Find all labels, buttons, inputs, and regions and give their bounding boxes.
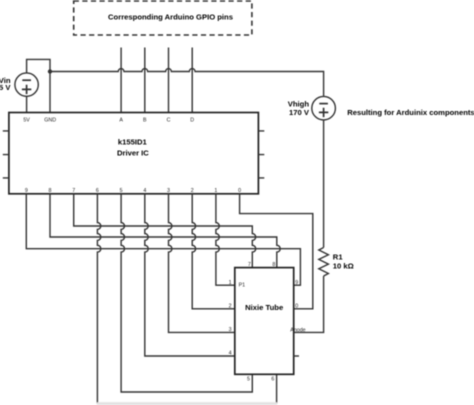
svg-text:0: 0: [238, 188, 241, 194]
svg-text:R1: R1: [333, 253, 344, 262]
svg-text:3: 3: [167, 188, 170, 194]
wire IC pin 2 to nixie pin 2: [192, 194, 235, 309]
clipped bottom wire remnant band: [97, 402, 278, 405]
wire IC pin 3 to nixie pin 3: [169, 194, 235, 333]
svg-text:8: 8: [49, 188, 52, 194]
wire IC pin 6 down (to clipped bottom run): [97, 194, 100, 404]
svg-text:9: 9: [295, 280, 298, 286]
wire IC pin 1 to nixie pin 1 (hops over rails 7,8,9): [216, 194, 235, 285]
svg-text:k155ID1: k155ID1: [118, 138, 148, 147]
wire IC pin 9 to nixie pin 9: [26, 194, 300, 285]
wire IC pin 4 to nixie pin 4: [145, 194, 235, 356]
svg-text:5V: 5V: [23, 117, 30, 123]
wire GPIO C drop: [168, 48, 170, 113]
svg-text:Driver IC: Driver IC: [117, 148, 149, 157]
svg-text:GND: GND: [44, 117, 56, 123]
svg-text:5: 5: [247, 377, 250, 383]
svg-text:4: 4: [229, 351, 232, 357]
svg-text:3: 3: [229, 327, 232, 333]
svg-text:4: 4: [143, 188, 146, 194]
svg-text:170 V: 170 V: [289, 108, 310, 117]
nixie unconnected stub pin: [294, 355, 299, 357]
svg-text:Nixie Tube: Nixie Tube: [245, 303, 283, 312]
svg-text:C: C: [167, 117, 171, 123]
IC right pin stubs: [258, 131, 264, 178]
wire R1 bottom to Anode pin: [294, 276, 324, 332]
wire IC pin 0 to nixie pin 0: [240, 194, 313, 309]
svg-text:7: 7: [72, 188, 75, 194]
svg-text:2: 2: [229, 303, 232, 309]
svg-text:5 V: 5 V: [0, 83, 11, 92]
svg-text:10 kΩ: 10 kΩ: [333, 262, 354, 271]
IC top pin labels: [23, 117, 194, 123]
svg-text:Anode: Anode: [290, 327, 305, 333]
wire GPIO A drop: [120, 48, 122, 113]
svg-text:7: 7: [248, 262, 251, 268]
svg-text:6: 6: [96, 188, 99, 194]
svg-text:9: 9: [25, 188, 28, 194]
svg-text:1: 1: [229, 280, 232, 286]
svg-text:D: D: [190, 117, 194, 123]
svg-text:6: 6: [271, 377, 274, 383]
svg-text:1: 1: [214, 188, 217, 194]
svg-text:2: 2: [191, 188, 194, 194]
wire Vhigh bottom to R1 top: [323, 120, 325, 248]
wire Vin bottom stub to IC 5V pin: [26, 96, 28, 112]
svg-text:B: B: [143, 117, 147, 123]
nixie tube P1 body: [235, 268, 294, 375]
IC left pin stubs: [3, 131, 9, 178]
svg-text:P1: P1: [239, 282, 246, 288]
svg-text:8: 8: [272, 262, 275, 268]
svg-text:Corresponding Arduino GPIO pin: Corresponding Arduino GPIO pins: [108, 12, 233, 21]
IC bottom pin labels: [25, 188, 241, 194]
svg-text:0: 0: [295, 303, 298, 309]
IC U1 k155ID1 body: [9, 113, 259, 194]
wire GPIO D drop: [191, 48, 193, 113]
junction node on GND wire: [48, 69, 52, 73]
wire 5V rail with hops over A B C D to Vhigh: [50, 69, 324, 97]
resistor R1 10 kOhm: [319, 248, 354, 277]
wire GPIO B drop: [144, 48, 146, 113]
wire IC pin 8 to nixie pin 8 (hop over rail 9): [50, 194, 280, 268]
svg-text:5: 5: [120, 188, 123, 194]
nixie pin labels: [229, 262, 306, 383]
dashed annotation box: Corresponding Arduino GPIO pins: [74, 1, 252, 35]
svg-text:A: A: [119, 117, 123, 123]
voltage source Vhigh 170 V: [288, 96, 336, 120]
wire IC pin 5 to nixie pin 5: [121, 194, 252, 392]
wire IC pin 7 to nixie pin 7 (hops over rails 8,9): [74, 194, 256, 268]
wire Vin top to IC GND pin: [27, 59, 50, 112]
voltage source Vin 5 V: [0, 73, 38, 96]
svg-text:Resulting for Arduinix compone: Resulting for Arduinix components: [347, 108, 474, 117]
wire nixie pin 6 down to clipped bottom run: [276, 374, 278, 403]
